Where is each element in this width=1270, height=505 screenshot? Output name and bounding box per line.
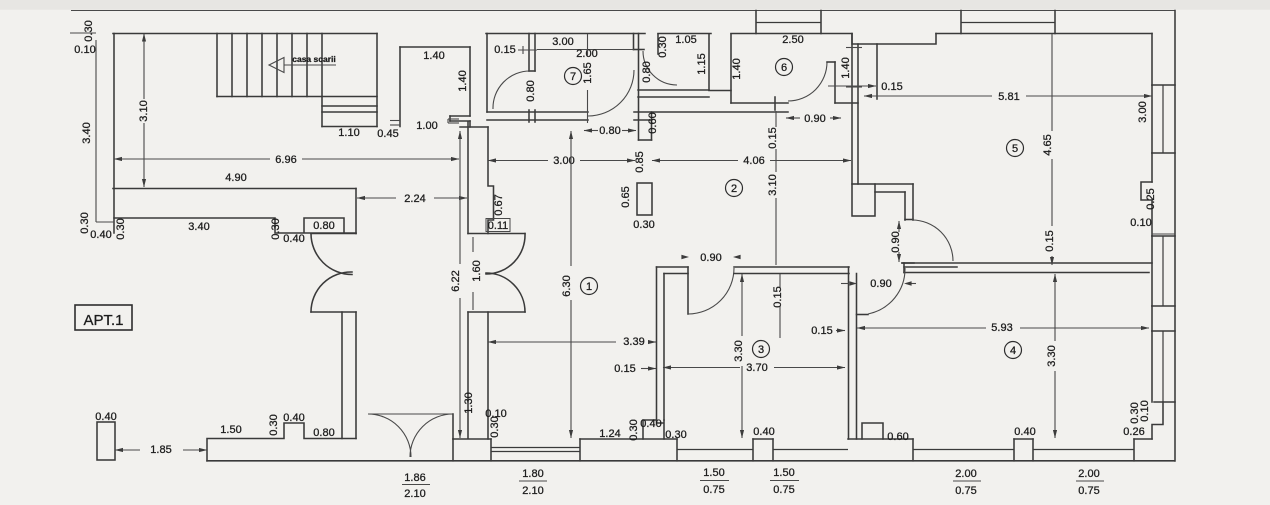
svg-text:casa scarii: casa scarii <box>292 54 335 64</box>
svg-text:1.30: 1.30 <box>463 392 475 413</box>
bottom wall outer line <box>207 460 1174 462</box>
dim 3.00 corridor <box>488 155 635 167</box>
room6 door arc <box>788 62 827 101</box>
label 1.24 <box>599 428 620 440</box>
dim 1.65 <box>582 34 594 123</box>
window 1.50a sill <box>677 449 753 451</box>
svg-text:7: 7 <box>570 71 576 83</box>
room5 left wall <box>876 44 878 99</box>
svg-text:3.40: 3.40 <box>81 122 93 143</box>
wall room5/4 <box>902 263 1152 273</box>
dim 0.90 room6 door <box>786 113 841 125</box>
svg-text:5.93: 5.93 <box>991 322 1012 334</box>
svg-text:3.30: 3.30 <box>1046 345 1058 366</box>
label 1.15 closet rot <box>696 53 708 74</box>
vestibule wall below bowtie-1 <box>342 312 356 439</box>
shaft (1.40) outline <box>400 47 470 116</box>
stair lower wall 4.90 <box>113 188 356 190</box>
dim 0.90 room3/4 door <box>841 278 916 290</box>
dim 4.65 <box>1042 34 1056 265</box>
label 1.40 room6-r rot <box>840 57 852 78</box>
dim 3.10 <box>138 34 150 188</box>
label 0.30 br rot <box>1129 402 1141 423</box>
label 0.40 step <box>640 418 661 430</box>
bottom-left block <box>207 423 356 461</box>
svg-text:0.75: 0.75 <box>703 484 724 496</box>
svg-text:1.00: 1.00 <box>416 120 437 132</box>
svg-text:6.96: 6.96 <box>275 154 296 166</box>
room3 right wall <box>849 267 857 439</box>
label 1.05 closet <box>675 34 696 46</box>
label 0.60 stub rot <box>647 112 659 133</box>
top wall step (room5 left) <box>852 34 936 45</box>
dim 5.93 <box>857 322 1149 334</box>
fraction 1.50/0.75 b <box>770 467 799 496</box>
svg-text:0.30: 0.30 <box>633 219 654 231</box>
svg-text:3: 3 <box>758 344 764 356</box>
right wall outer face <box>1174 11 1176 462</box>
dim 6.22 <box>450 131 462 438</box>
window 2.00a sill <box>913 449 1014 451</box>
closet door arc <box>643 51 677 85</box>
svg-text:0.40: 0.40 <box>90 229 111 241</box>
fraction 2.00/0.75 b <box>1076 468 1104 497</box>
label 0.30 parapet-r rot <box>270 218 282 239</box>
svg-text:3.10: 3.10 <box>138 100 150 121</box>
svg-text:2.00: 2.00 <box>1078 468 1099 480</box>
wall stub below hall <box>639 112 652 140</box>
svg-text:0.90: 0.90 <box>700 252 721 264</box>
window 1.80/2.10 sill <box>491 448 580 452</box>
left top tick 0.30 <box>70 32 96 34</box>
svg-text:0.40: 0.40 <box>1014 426 1035 438</box>
label 0.10 entry <box>485 408 506 420</box>
label 0.40 parapet-l <box>90 229 111 241</box>
room3 door jamb <box>687 267 689 314</box>
dim 1.85 <box>115 444 207 456</box>
svg-text:0.26: 0.26 <box>1123 426 1144 438</box>
window right-1 (3.00) <box>1152 85 1175 153</box>
svg-text:1.40: 1.40 <box>731 58 743 79</box>
svg-text:0.10: 0.10 <box>1139 400 1151 421</box>
svg-text:5: 5 <box>1012 143 1018 155</box>
label 0.30 top-left <box>83 20 95 41</box>
window 1.50b sill <box>773 449 848 451</box>
svg-text:3.39: 3.39 <box>623 336 644 348</box>
label 0.40 w5 <box>1014 426 1035 438</box>
svg-text:0.30: 0.30 <box>270 218 282 239</box>
svg-text:2.10: 2.10 <box>522 485 543 497</box>
label 3.40 parapet <box>188 221 209 233</box>
svg-text:3.00: 3.00 <box>1137 101 1149 122</box>
bottom pier (0.60) <box>862 423 883 439</box>
room number 1 <box>581 278 598 295</box>
svg-text:2.10: 2.10 <box>404 488 425 500</box>
label 0.40 w3 <box>753 426 774 438</box>
svg-text:0.80: 0.80 <box>313 220 334 232</box>
label 0.80 block <box>313 427 334 439</box>
dim 3.70 <box>663 362 845 374</box>
svg-text:0.40: 0.40 <box>753 426 774 438</box>
right wall tick <box>1152 233 1175 235</box>
top wall inner line <box>113 33 1152 35</box>
stair landing <box>322 34 377 127</box>
svg-text:6.30: 6.30 <box>561 275 573 296</box>
double door bowtie-1 arcs <box>311 234 352 313</box>
label 1.00 <box>416 120 437 132</box>
svg-text:1.50: 1.50 <box>220 424 241 436</box>
fraction 1.80/2.10 <box>519 468 547 497</box>
svg-text:0.15: 0.15 <box>881 81 902 93</box>
label 1.10 <box>338 127 359 139</box>
svg-text:0.40: 0.40 <box>640 418 661 430</box>
shaft jamb ticks (1.00) <box>450 116 470 121</box>
label 0.80 closet rot <box>641 61 653 82</box>
svg-text:3.70: 3.70 <box>746 362 767 374</box>
shaft left edge <box>390 47 400 127</box>
svg-text:0.30: 0.30 <box>268 414 280 435</box>
label 1.30 rot <box>463 392 475 413</box>
parapet left end <box>96 40 114 222</box>
box 0.11 <box>486 219 510 233</box>
svg-text:0.67: 0.67 <box>493 194 505 215</box>
svg-text:0.15: 0.15 <box>811 325 832 337</box>
svg-text:4.90: 4.90 <box>225 172 246 184</box>
svg-text:0.15: 0.15 <box>767 127 779 148</box>
pillar 0.40 <box>97 422 115 460</box>
label 0.15 room5 left <box>828 81 903 93</box>
fraction 1.50/0.75 a <box>700 467 729 496</box>
label 0.15 room3wall <box>614 363 656 375</box>
svg-text:0.25: 0.25 <box>1145 188 1157 209</box>
label 1.40 shaft <box>423 50 444 62</box>
label 1.50 block <box>220 424 241 436</box>
right wall inner segments <box>1151 34 1153 332</box>
label 0.40 pillar <box>95 411 116 423</box>
label casa scarii <box>292 54 335 64</box>
room3 door arc <box>688 268 734 314</box>
label 4.90 <box>225 172 246 184</box>
pier room2 <box>852 184 875 216</box>
svg-text:3.10: 3.10 <box>767 174 779 195</box>
svg-text:0.30: 0.30 <box>489 416 501 437</box>
svg-text:2.50: 2.50 <box>782 34 803 46</box>
fraction 2.00/0.75 a <box>953 468 981 497</box>
svg-text:1.86: 1.86 <box>404 472 425 484</box>
svg-text:0.75: 0.75 <box>1078 485 1099 497</box>
label 0.30 entry rot <box>489 416 501 437</box>
label 0.30 column <box>633 219 654 231</box>
dim 0.90 room3 door <box>681 252 740 264</box>
label 0.30 closet rot <box>657 36 669 57</box>
svg-text:0.75: 0.75 <box>955 485 976 497</box>
svg-text:1.40: 1.40 <box>423 50 444 62</box>
svg-text:0.90: 0.90 <box>870 278 891 290</box>
label 0.80 parapet <box>313 220 334 232</box>
svg-text:0.90: 0.90 <box>890 231 902 252</box>
hall door leaf ticks <box>529 110 535 122</box>
svg-text:0.60: 0.60 <box>887 431 908 443</box>
dim 3.30 room3 <box>733 274 745 438</box>
label 0.15 room7 <box>494 44 537 56</box>
stair left wall <box>113 34 115 234</box>
room3 top wall <box>734 267 849 274</box>
label 0.85 rot <box>634 151 646 172</box>
label 2.50 <box>782 34 803 46</box>
svg-text:0.30: 0.30 <box>628 419 640 440</box>
label 0.45 <box>377 128 398 140</box>
label 0.40 parapet-r <box>283 233 304 245</box>
entry door header <box>368 413 453 415</box>
dim 3.39 <box>488 336 656 348</box>
svg-text:3.30: 3.30 <box>733 340 745 361</box>
casa scarii arrow <box>269 58 336 73</box>
entry door arc left <box>368 414 411 457</box>
label 0.30 step rot <box>628 419 640 440</box>
double door bowtie-2 caps <box>468 234 525 313</box>
room6 right wall ticks <box>846 48 862 88</box>
label 0.15 room3 top rot <box>772 274 784 338</box>
svg-text:2.24: 2.24 <box>404 193 425 205</box>
dim 5.81 <box>864 91 1152 103</box>
counter lines <box>875 184 913 220</box>
room number 4 <box>1005 342 1022 359</box>
dim 3.10 room2 <box>767 111 779 265</box>
label 0.60 w4 <box>887 431 908 443</box>
label 0.26 <box>1123 426 1144 438</box>
dim 3.30 room4 <box>1046 274 1058 438</box>
label 0.67 rot <box>493 194 505 215</box>
svg-text:0.30: 0.30 <box>115 218 127 239</box>
svg-text:0.15: 0.15 <box>772 286 784 307</box>
svg-text:1.15: 1.15 <box>696 53 708 74</box>
room6 left wall <box>730 34 732 103</box>
svg-text:1.65: 1.65 <box>582 62 594 83</box>
label 0.25 rot <box>1145 188 1157 209</box>
label 1.40 room6-l rot <box>731 58 743 79</box>
top boundary line <box>71 10 1175 12</box>
svg-text:0.40: 0.40 <box>283 233 304 245</box>
label 1.40 shaft rot <box>457 70 469 91</box>
label 1.60 rot <box>471 237 483 310</box>
label 0.40 block <box>283 412 304 424</box>
room7 door jamb top <box>529 34 535 72</box>
closet bottom wall <box>638 90 731 97</box>
central wall right face upper <box>488 127 494 234</box>
label 0.10 right <box>1130 217 1151 229</box>
svg-text:4.06: 4.06 <box>743 155 764 167</box>
svg-text:0.30: 0.30 <box>79 212 91 233</box>
svg-text:0.15: 0.15 <box>494 44 515 56</box>
double door bowtie-2 arcs <box>486 234 525 313</box>
room6 right wall <box>852 34 858 184</box>
svg-text:1: 1 <box>586 281 592 293</box>
room6 bottom wall <box>731 97 858 110</box>
svg-text:4.65: 4.65 <box>1042 134 1054 155</box>
svg-text:0.80: 0.80 <box>313 427 334 439</box>
svg-text:1.10: 1.10 <box>338 127 359 139</box>
svg-text:3.00: 3.00 <box>552 36 573 48</box>
window jambs bottom <box>453 439 1134 461</box>
svg-text:0.40: 0.40 <box>283 412 304 424</box>
room3 left wall bottom step <box>643 420 664 439</box>
room7 door arc <box>493 71 530 109</box>
central wall right face lower <box>487 312 489 439</box>
svg-text:0.60: 0.60 <box>647 112 659 133</box>
label 0.30 parapet-l rot <box>79 212 91 233</box>
room3 right door cap <box>857 314 869 316</box>
central wall left face <box>467 122 469 439</box>
svg-text:1.40: 1.40 <box>457 70 469 91</box>
label 0.10 top-left <box>74 44 95 56</box>
window right-3 <box>1152 331 1175 402</box>
window 2.00b sill <box>1033 449 1134 451</box>
svg-text:6.22: 6.22 <box>450 270 462 291</box>
dim 4.06 <box>652 155 851 167</box>
hall door arc (0.80) <box>588 70 634 116</box>
svg-text:0.80: 0.80 <box>525 80 537 101</box>
svg-text:1.05: 1.05 <box>675 34 696 46</box>
right wall bottom step (0.30/0.10) <box>1152 402 1163 439</box>
window top-B (room 5) <box>961 11 1055 34</box>
svg-text:0.11: 0.11 <box>488 220 509 232</box>
dim 0.90 room5 door rot <box>890 221 902 262</box>
label 0.30 parapet-l2 rot <box>115 218 127 239</box>
svg-text:1.50: 1.50 <box>703 467 724 479</box>
svg-text:1.60: 1.60 <box>471 260 483 281</box>
wall stub right of 4.90 <box>355 189 357 234</box>
svg-text:1.50: 1.50 <box>773 467 794 479</box>
room number 5 <box>1007 140 1024 157</box>
svg-text:5.81: 5.81 <box>998 91 1019 103</box>
label 0.80 room7 rot <box>525 80 537 101</box>
label 3.00 right rot <box>1137 101 1149 122</box>
svg-text:0.30: 0.30 <box>657 36 669 57</box>
stair treads <box>217 34 322 97</box>
svg-text:2: 2 <box>731 183 737 195</box>
room7 left wall <box>486 34 488 113</box>
svg-text:0.45: 0.45 <box>377 128 398 140</box>
room7 right wall <box>634 34 645 141</box>
central wall top ticks <box>448 119 459 123</box>
dim 2.24 <box>357 193 467 205</box>
room6 door jamb <box>827 62 835 103</box>
svg-text:0.15: 0.15 <box>614 363 635 375</box>
fraction 1.86/2.10 <box>402 472 430 500</box>
column 0.65x0.30 <box>637 183 652 215</box>
stair tread base line <box>217 96 377 98</box>
svg-text:0.30: 0.30 <box>665 429 686 441</box>
room number 2 <box>726 180 743 197</box>
entry door jamb <box>452 414 454 439</box>
label 0.10 br rot <box>1139 400 1151 421</box>
label 0.15 room3 right <box>811 325 845 337</box>
dim 3.40 vertical <box>81 122 93 143</box>
room number 7 <box>565 68 582 85</box>
label 0.30 block rot <box>268 414 280 435</box>
svg-text:1.80: 1.80 <box>522 468 543 480</box>
svg-text:2.00: 2.00 <box>955 468 976 480</box>
label 0.65 rot <box>620 186 632 207</box>
room number 6 <box>776 59 793 76</box>
dim 3.00/2.00 room7 <box>537 36 634 60</box>
window right-2 <box>1152 236 1175 306</box>
dim 6.30 <box>561 131 573 438</box>
svg-text:0.30: 0.30 <box>83 20 95 41</box>
svg-text:0.80: 0.80 <box>599 125 620 137</box>
window top-A (2.50, room 6) <box>756 11 821 34</box>
APT.1 box <box>75 305 132 330</box>
svg-text:0.10: 0.10 <box>1130 217 1151 229</box>
closet right wall <box>708 34 710 90</box>
room5 door arc (0.90) <box>912 220 953 261</box>
parapet outline <box>114 218 356 233</box>
svg-text:1.40: 1.40 <box>840 57 852 78</box>
label 0.30 w2 <box>665 429 686 441</box>
svg-text:3.40: 3.40 <box>188 221 209 233</box>
svg-text:0.80: 0.80 <box>641 61 653 82</box>
dim 0.80 hall door <box>584 125 636 137</box>
svg-text:0.90: 0.90 <box>804 113 825 125</box>
svg-text:1.85: 1.85 <box>150 444 171 456</box>
dim 6.96 <box>114 154 459 166</box>
svg-text:4: 4 <box>1010 345 1016 357</box>
room3 left wall <box>657 267 689 420</box>
double door bowtie-1 caps <box>311 234 356 313</box>
svg-text:6: 6 <box>781 62 787 74</box>
svg-text:APT.1: APT.1 <box>83 312 123 329</box>
right wall notch (0.25/0.10) <box>1141 182 1152 200</box>
closet divider <box>657 34 659 54</box>
svg-text:0.40: 0.40 <box>95 411 116 423</box>
svg-text:0.85: 0.85 <box>634 151 646 172</box>
svg-text:0.15: 0.15 <box>1044 230 1056 251</box>
room4 door jamb cap <box>902 262 914 264</box>
room number 3 <box>753 341 770 358</box>
entry door arc right <box>410 414 453 457</box>
svg-text:0.65: 0.65 <box>620 186 632 207</box>
hall south wall <box>487 112 788 120</box>
svg-text:0.10: 0.10 <box>74 44 95 56</box>
corridor top corner <box>460 121 488 127</box>
svg-text:1.24: 1.24 <box>599 428 620 440</box>
room3/4 door arc <box>868 268 905 314</box>
svg-text:0.75: 0.75 <box>773 484 794 496</box>
bottom wall inner line <box>453 438 1152 440</box>
